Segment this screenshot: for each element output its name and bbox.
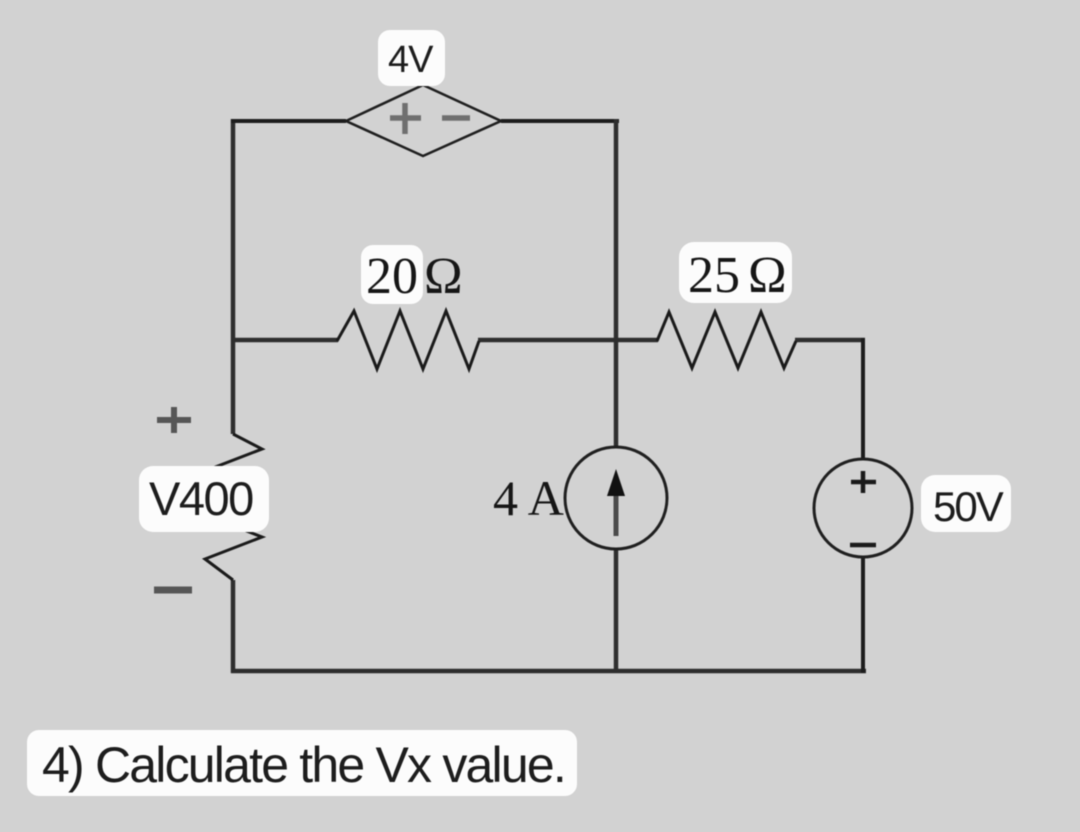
label: 50V value box <box>921 475 1011 532</box>
source V400: vertical zigzag element on left branch <box>205 434 262 580</box>
label: problem statement text box <box>27 730 577 796</box>
wire: middle vertical, 4A source bottom to bottom rail <box>614 548 619 673</box>
resistor R2: 25-ohm zigzag <box>657 312 796 368</box>
wire: middle vertical, top rail to 4A source top <box>614 119 619 448</box>
wire: middle row, left node to 20-ohm resistor <box>233 338 338 343</box>
svg-text:4) Calculate the Vx value.: 4) Calculate the Vx value. <box>42 737 565 793</box>
current source I1: circle body <box>565 447 667 549</box>
wire: left vertical, top node to V400 top <box>231 119 236 434</box>
svg-text:V400: V400 <box>149 472 253 525</box>
source V400: minus polarity mark <box>154 587 192 594</box>
svg-text:20: 20 <box>366 248 418 305</box>
voltage source V1: 50V circle body <box>814 459 912 557</box>
svg-text:Ω: Ω <box>424 248 463 305</box>
wire: top rail right segment (diamond right tip to middle branch) <box>501 119 619 123</box>
wire: middle row, 25-ohm resistor to right corner <box>795 338 865 343</box>
voltage source V1: plus polarity mark <box>851 471 876 493</box>
dependent voltage source E1: plus polarity mark <box>390 103 421 134</box>
svg-text:Ω: Ω <box>748 247 787 304</box>
label: V400 name box <box>139 466 269 532</box>
voltage source V1: minus polarity mark <box>850 543 876 548</box>
dependent voltage source E1: diamond body <box>346 85 501 156</box>
wire: middle row, 20-ohm resistor to 25-ohm resistor (through node at middle branch) <box>478 338 658 343</box>
resistor R1: 20-ohm zigzag <box>337 311 479 369</box>
wire: bottom rail <box>231 669 866 674</box>
wire: right vertical, 50V source bottom to bottom rail <box>861 557 865 673</box>
svg-text:4V: 4V <box>388 39 434 81</box>
wire: right vertical, corner to 50V source top <box>861 338 865 460</box>
svg-text:25: 25 <box>688 247 740 304</box>
source V400: plus polarity mark <box>157 407 191 433</box>
svg-text:50V: 50V <box>933 483 1004 530</box>
wire: left vertical, V400 bottom to bottom rail <box>231 580 236 673</box>
current source I1: arrow (pointing up) <box>607 469 625 536</box>
wire: top rail left segment (to diamond left tip) <box>231 119 346 123</box>
label: 4 A value text <box>493 470 564 526</box>
dependent voltage source E1: minus polarity mark <box>442 115 470 121</box>
label: 4V value box <box>378 30 445 86</box>
label: 20 ohm value box <box>361 245 463 305</box>
svg-text:4 A: 4 A <box>493 470 564 526</box>
label: 25 ohm value box <box>679 242 792 304</box>
